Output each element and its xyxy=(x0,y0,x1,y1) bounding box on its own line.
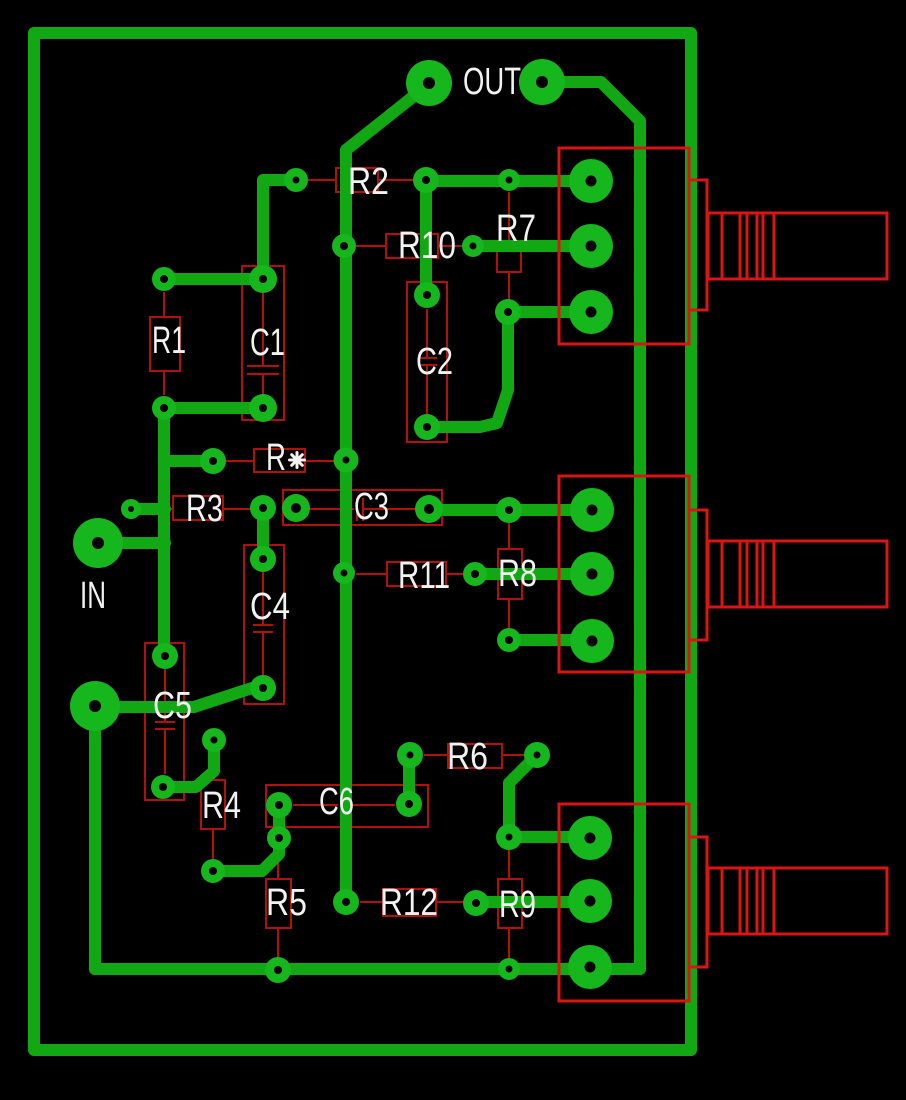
pad pot2 pin1 xyxy=(570,488,614,532)
pad R5.1 xyxy=(267,826,291,850)
wire R2 right down to C2 top xyxy=(420,181,432,295)
wire C5 bottom to R4 top xyxy=(163,740,214,787)
svg-text:R9: R9 xyxy=(499,884,536,926)
pad R6.2 xyxy=(524,742,550,768)
capacitor C5 xyxy=(145,643,184,800)
pad C5.1 xyxy=(152,643,178,669)
copper traces xyxy=(34,33,691,1050)
resistor R4 xyxy=(201,752,225,859)
svg-text:R: R xyxy=(266,437,286,479)
resistor R1 xyxy=(150,292,180,395)
pad C6.1 xyxy=(266,792,292,818)
potentiometer outlines (over copper) xyxy=(559,148,887,1001)
potentiometer P3 xyxy=(559,804,887,1001)
svg-text:R3: R3 xyxy=(186,488,223,530)
svg-text:R2: R2 xyxy=(348,161,389,203)
wire R6 right to R9 junction xyxy=(509,755,537,837)
pad R11.2 xyxy=(463,562,487,586)
wire R8 bottom to pot2 pin3 xyxy=(509,634,592,646)
wire R9 junction to pot3 pin1 xyxy=(509,831,590,843)
svg-text:C1: C1 xyxy=(250,322,285,364)
pad pot3 pin2 xyxy=(568,879,612,923)
pad R3.2 xyxy=(250,495,276,521)
pad pot1 pin1 xyxy=(569,159,613,203)
wire R3 left xyxy=(131,503,165,515)
wire IN pad to left bus xyxy=(98,537,165,549)
pad C4.2 xyxy=(250,675,276,701)
resistor Rstar xyxy=(226,449,335,472)
resistor R9 xyxy=(498,850,522,958)
pad R6.1 xyxy=(397,742,423,768)
pad R12.2 xyxy=(463,890,489,916)
pad pot3 pin1 xyxy=(568,816,612,860)
svg-text:R11: R11 xyxy=(398,555,450,597)
svg-text:R12: R12 xyxy=(380,882,438,924)
resistor R10 xyxy=(356,234,462,258)
pad C3.1 xyxy=(282,494,310,522)
pad OUT1 xyxy=(406,60,452,106)
svg-text:R8: R8 xyxy=(498,553,537,595)
pad ground xyxy=(70,681,120,731)
svg-text:R1: R1 xyxy=(152,320,186,362)
svg-text:R7: R7 xyxy=(496,208,536,250)
pad C1.1 xyxy=(249,265,277,293)
pad pot1 pin2 xyxy=(569,224,613,268)
svg-text:C2: C2 xyxy=(416,341,453,383)
asterisk of Rstar label xyxy=(290,453,305,468)
wire C6 right to R6 left xyxy=(403,755,415,804)
pad R9 junction xyxy=(496,824,522,850)
wire left ground vertical xyxy=(89,706,101,969)
pad R2.1 xyxy=(284,168,308,192)
pad C6.2 xyxy=(396,791,422,817)
wire R7 bottom to C2 bottom xyxy=(427,312,508,427)
pad C5.2 xyxy=(151,775,175,799)
wire R3 right to C4 top xyxy=(257,509,269,559)
wire left bus vertical xyxy=(158,408,170,656)
svg-text:C6: C6 xyxy=(319,781,354,823)
capacitor C3 xyxy=(283,490,442,525)
capacitor C1 xyxy=(242,266,284,420)
wire C3 right to pot2 pin1 xyxy=(429,504,592,516)
wire R12 right to pot3 pin2 xyxy=(476,896,590,908)
wire bottom ground bus xyxy=(95,963,640,975)
pad C2.1 xyxy=(414,282,440,308)
wire R* left stub xyxy=(165,455,213,467)
pad R1.1 xyxy=(152,267,176,291)
pad R7.2 xyxy=(495,299,521,325)
pad Rstar.1 xyxy=(200,448,226,474)
pad R3.1 xyxy=(121,499,141,519)
pad C1.2 xyxy=(249,394,277,422)
wire C1 top to R2 left xyxy=(263,180,296,279)
pad R10.1 xyxy=(332,234,356,258)
svg-text:IN: IN xyxy=(80,575,106,617)
resistor R5 xyxy=(266,850,291,958)
wire ground pad to C4 bottom xyxy=(95,688,263,707)
wire R1 bottom to C1 bottom xyxy=(164,402,263,414)
svg-text:OUT: OUT xyxy=(463,61,521,103)
pad pot3 pin3 xyxy=(568,945,612,989)
pad R9.2 xyxy=(498,958,520,980)
wire R2 right to pot1 pin1 xyxy=(426,175,591,187)
svg-text:R10: R10 xyxy=(398,225,456,267)
pad pot2 pin2 xyxy=(570,552,614,596)
pad R8.2 xyxy=(497,628,521,652)
svg-text:R4: R4 xyxy=(202,785,241,827)
capacitor C4 xyxy=(244,545,284,704)
wire R10 right to pot1 pin2 xyxy=(473,240,591,252)
svg-text:R5: R5 xyxy=(266,882,307,924)
pad Rstar.2 xyxy=(334,448,359,473)
pad R2.2 xyxy=(413,167,439,193)
pad C2.2 xyxy=(414,414,440,440)
resistor R3 xyxy=(142,496,250,520)
board outline xyxy=(34,33,691,1050)
svg-text:C4: C4 xyxy=(250,586,290,628)
resistor R8 xyxy=(498,523,522,628)
pad R4.1 xyxy=(202,728,226,752)
svg-text:C5: C5 xyxy=(153,685,192,727)
pad OUT2 xyxy=(519,59,565,105)
pad R7.1 xyxy=(498,169,520,191)
pad pot1 pin3 xyxy=(569,290,613,334)
wire R4 bottom to C6 left xyxy=(213,805,279,871)
wire OUT left to main vertical bus xyxy=(346,84,429,902)
pads xyxy=(70,59,614,989)
pad R11.1 xyxy=(333,562,355,584)
resistor R6 xyxy=(424,744,524,768)
pad pot2 pin3 xyxy=(570,619,614,663)
resistor R7 xyxy=(497,192,521,300)
pad R12.1 xyxy=(333,889,359,915)
pad C3.2 xyxy=(415,495,443,523)
resistor R2 xyxy=(308,168,414,192)
resistor R12 xyxy=(360,889,463,916)
pad R10.2 xyxy=(462,235,484,257)
svg-text:C3: C3 xyxy=(354,486,389,528)
wire R11 right to pot2 pin2 xyxy=(475,568,592,580)
pad R4.2 xyxy=(201,859,225,883)
silkscreen outlines (under copper) xyxy=(142,168,524,958)
svg-text:R6: R6 xyxy=(447,736,488,778)
capacitor C6 xyxy=(266,785,428,827)
potentiometer P1 xyxy=(559,148,887,344)
wire R7 bottom to pot1 pin3 xyxy=(508,306,591,318)
wire R1 top to C1 top xyxy=(164,273,263,285)
capacitor C2 xyxy=(407,282,447,442)
pad R1.2 xyxy=(152,396,176,420)
pad C4.1 xyxy=(250,546,276,572)
pad R5.2 xyxy=(265,957,291,983)
potentiometer P2 xyxy=(559,476,887,672)
wire OUT right to right vertical bus xyxy=(542,82,640,969)
pad R8.1 xyxy=(496,497,522,523)
resistor R11 xyxy=(356,562,463,586)
pad IN xyxy=(73,518,123,568)
